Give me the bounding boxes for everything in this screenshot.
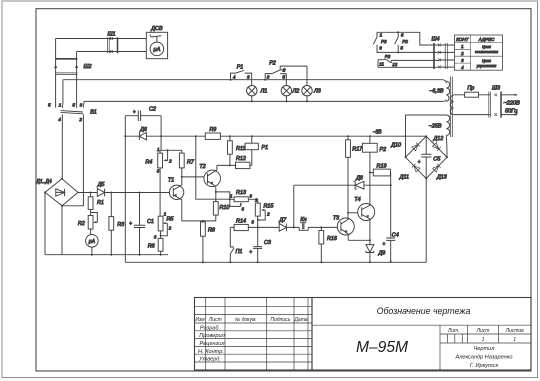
wire 25В winding to bridge left	[406, 115, 447, 157]
diode Д13	[433, 164, 447, 181]
svg-text:Т1: Т1	[168, 177, 174, 183]
svg-text:С5: С5	[433, 156, 441, 162]
svg-text:управления: управления	[476, 64, 497, 68]
svg-text:Т4: Т4	[354, 197, 360, 203]
wire vertical to В1 contact 5 right	[76, 52, 78, 105]
diode Д10	[390, 142, 420, 151]
svg-text:2: 2	[266, 212, 270, 217]
svg-text:С3: С3	[264, 240, 271, 246]
diode Д12	[433, 136, 444, 151]
potentiometer R15	[251, 197, 274, 227]
svg-text:В1: В1	[90, 109, 97, 115]
capacitor C3	[249, 227, 271, 263]
diode bridge Д1..Д4	[35, 178, 78, 207]
svg-text:Цепи: Цепи	[482, 45, 491, 49]
resistor R11	[228, 136, 246, 165]
wire Д8 line	[294, 184, 391, 186]
svg-text:3: 3	[267, 74, 270, 79]
svg-text:+: +	[382, 242, 385, 248]
svg-text:R15: R15	[264, 203, 275, 209]
wire Т3/Т4 emitter rail	[348, 239, 371, 244]
svg-text:Ш4: Ш4	[432, 37, 440, 43]
svg-text:R11: R11	[236, 146, 246, 152]
svg-text:μА: μА	[153, 47, 161, 53]
header row labels	[195, 317, 307, 323]
svg-text:+: +	[133, 110, 136, 116]
svg-text:12: 12	[392, 62, 398, 67]
svg-text:Утверд.: Утверд.	[198, 357, 221, 363]
svg-text:С2: С2	[149, 106, 156, 112]
svg-text:Рецензил: Рецензил	[199, 341, 225, 347]
svg-text:Л1: Л1	[260, 89, 268, 95]
wire 25В winding to bridge right	[445, 135, 448, 157]
capacitor C2	[125, 106, 161, 121]
capacitor C5	[418, 136, 442, 178]
svg-text:Лист: Лист	[208, 317, 222, 323]
diode Д5	[97, 182, 106, 196]
svg-text:8: 8	[401, 32, 404, 37]
svg-text:−6,3В: −6,3В	[429, 89, 444, 95]
resistor R19	[369, 163, 391, 238]
svg-text:5: 5	[48, 102, 51, 107]
svg-text:−25В: −25В	[429, 123, 442, 129]
document name	[377, 306, 471, 316]
wire heater bus 1	[63, 80, 446, 105]
transistor Т3	[333, 213, 354, 241]
title block main box	[312, 298, 531, 371]
svg-text:Д13: Д13	[436, 174, 447, 180]
drawing number	[356, 339, 408, 356]
relay contact Р2.1	[373, 32, 387, 50]
lamp Л1	[247, 86, 268, 103]
wire ДСВ line 1	[56, 38, 147, 40]
svg-text:Л3: Л3	[313, 89, 321, 95]
wire bridge left corner to meter rail	[44, 192, 46, 254]
svg-text:Чертил: Чертил	[474, 346, 496, 352]
svg-text:ДСВ: ДСВ	[150, 26, 163, 32]
svg-text:Ш1: Ш1	[108, 31, 116, 37]
transformer Тр core	[450, 77, 452, 138]
lamp Л3	[302, 66, 321, 102]
svg-text:Лит.: Лит.	[447, 328, 460, 334]
diode Д7	[278, 218, 287, 232]
svg-text:R8: R8	[208, 228, 215, 234]
svg-text:2: 2	[168, 225, 172, 230]
wire Т2 emitter / R10 node	[215, 191, 230, 199]
svg-text:Т3: Т3	[333, 216, 339, 222]
svg-text:+: +	[249, 250, 252, 256]
svg-text:5: 5	[282, 74, 285, 79]
wire −3В feed down (R13 branch)	[196, 136, 230, 199]
svg-text:Лист: Лист	[476, 328, 490, 334]
node Т3 collector / Т4 base	[347, 212, 362, 214]
svg-text:Ш3: Ш3	[492, 86, 500, 92]
svg-text:R14: R14	[236, 219, 246, 225]
potentiometer R2	[78, 213, 97, 235]
transformer heater winding −6,3В	[429, 81, 449, 101]
svg-text:11: 11	[379, 62, 384, 67]
wire contact 11 to Ш4 pin4	[378, 66, 439, 68]
wire В1 leg 4 to bridge	[61, 114, 63, 179]
svg-text:R7: R7	[187, 159, 195, 165]
wire vertical to В1 contact 5 left	[55, 39, 57, 105]
meter rail (bottom bus A)	[45, 254, 168, 256]
capacitor C1	[129, 192, 154, 256]
svg-text:5: 5	[400, 45, 403, 50]
svg-text:Р2: Р2	[385, 54, 391, 59]
svg-text:3: 3	[247, 74, 250, 79]
svg-text:R9: R9	[209, 127, 216, 133]
resistor R12	[217, 156, 252, 168]
wire bridge bottom to ground rail	[425, 178, 427, 262]
svg-text:+: +	[418, 159, 421, 165]
svg-text:4: 4	[58, 117, 61, 122]
svg-text:Р2: Р2	[380, 147, 387, 153]
ground rail (bottom bus B)	[125, 261, 426, 263]
transformer primary winding	[450, 95, 453, 115]
svg-text:Д10: Д10	[390, 142, 401, 148]
signature rows	[198, 325, 226, 362]
svg-text:Д6: Д6	[139, 127, 147, 133]
zener diode Д8	[353, 176, 391, 190]
svg-text:2: 2	[282, 68, 286, 73]
svg-text:№ докум.: № докум.	[235, 317, 257, 323]
resistor R3	[109, 192, 124, 256]
zener diode Д9	[366, 245, 385, 264]
potentiometer R13	[229, 190, 253, 211]
relay contact Р1	[230, 64, 252, 85]
svg-text:5: 5	[72, 102, 75, 107]
wire mains 220V bottom	[454, 114, 518, 116]
svg-text:Листов: Листов	[505, 328, 525, 334]
svg-text:1: 1	[59, 102, 62, 107]
lamp Л2	[281, 86, 299, 103]
supply bus −3В with diode Д6	[125, 127, 426, 140]
resistor R17	[346, 136, 364, 213]
svg-text:1: 1	[482, 337, 485, 343]
title block left table	[195, 298, 313, 371]
connector Ш3	[489, 86, 501, 118]
relay coil Р2	[362, 136, 386, 205]
svg-text:2: 2	[460, 51, 464, 56]
svg-text:Д1..Д4: Д1..Д4	[35, 179, 52, 185]
svg-text:Ш2: Ш2	[84, 64, 92, 70]
push button Кн	[299, 217, 308, 230]
svg-text:Д11: Д11	[399, 174, 409, 180]
wire heater bus 2	[84, 100, 446, 105]
resistor R7	[179, 150, 194, 177]
potentiometer R4	[145, 147, 172, 216]
connector Ш1	[107, 31, 117, 53]
connector Ш4	[432, 37, 455, 70]
wire Р2 tops to Ш4 pin1	[377, 31, 439, 45]
svg-text:Д12: Д12	[433, 136, 444, 142]
svg-text:R17: R17	[352, 147, 363, 153]
svg-text:1: 1	[380, 32, 383, 37]
transistor Т2	[199, 164, 220, 192]
svg-text:R1: R1	[97, 200, 104, 206]
svg-text:АДРЕС: АДРЕС	[478, 37, 495, 42]
svg-text:R10: R10	[220, 205, 230, 211]
svg-text:R6: R6	[148, 243, 155, 249]
diode Д11	[399, 164, 420, 181]
svg-text:Александр Назаренко: Александр Назаренко	[454, 355, 512, 361]
svg-text:Цепи: Цепи	[482, 59, 491, 63]
svg-text:R12: R12	[236, 156, 246, 162]
svg-text:Л2: Л2	[292, 89, 300, 95]
svg-text:Р2: Р2	[402, 39, 408, 44]
svg-text:Г. Иркутск: Г. Иркутск	[470, 363, 499, 369]
transistor Т1	[168, 177, 184, 221]
resistor R8	[201, 220, 215, 263]
wire C2 right leg down to R4 node	[160, 116, 162, 151]
resistor R10	[213, 192, 229, 221]
svg-text:R16: R16	[327, 236, 337, 242]
wire Т1 emitter rail	[182, 220, 216, 222]
svg-text:+: +	[129, 221, 132, 227]
relay coil Р1	[245, 136, 268, 165]
svg-text:Разраб.: Разраб.	[200, 325, 220, 331]
svg-text:2: 2	[78, 117, 82, 122]
svg-text:С1: С1	[147, 219, 154, 225]
address table КОНТ/АДРЕС	[454, 35, 502, 70]
switch П1 contact	[229, 227, 242, 263]
fuse Пр	[454, 86, 490, 98]
wire mains 220V top	[501, 94, 518, 96]
meter μA	[86, 235, 99, 256]
svg-text:Р1: Р1	[237, 64, 244, 70]
wire Т1 collector to Т2 base	[181, 176, 208, 178]
svg-text:Д5: Д5	[97, 182, 106, 188]
wire ДСВ line 2	[77, 51, 147, 53]
resistor R9 in bus	[205, 127, 220, 139]
svg-text:50Гц: 50Гц	[505, 108, 517, 114]
svg-text:Д7: Д7	[278, 218, 287, 224]
svg-text:Проверил: Проверил	[199, 333, 225, 339]
relay contact Р2 lamps	[264, 61, 307, 86]
relay contact Р2.2	[395, 32, 409, 50]
radio unit ДСВ with meter	[146, 26, 167, 59]
wire bridge right / Т1 base line	[78, 192, 173, 194]
relay contact Р2.3	[378, 54, 398, 67]
node Д7/riser junction	[293, 185, 295, 228]
capacitor C4	[382, 232, 398, 262]
svg-text:Т2: Т2	[199, 164, 205, 170]
wire Р2 bottoms to Ш4 pin2	[377, 49, 439, 54]
svg-text:Д8: Д8	[355, 176, 363, 182]
svg-text:4: 4	[233, 74, 236, 79]
svg-text:R2: R2	[78, 221, 85, 227]
svg-text:R4: R4	[145, 159, 152, 165]
svg-text:Обозначение чертежа: Обозначение чертежа	[377, 306, 471, 316]
svg-text:Кн: Кн	[300, 217, 306, 223]
lit/list/listov	[447, 328, 524, 369]
svg-text:Изм: Изм	[195, 317, 205, 323]
svg-text:КОНТ: КОНТ	[456, 37, 470, 42]
node dot bus left end	[124, 135, 126, 137]
svg-text:С4: С4	[392, 232, 399, 238]
svg-text:3: 3	[80, 102, 83, 107]
svg-text:Р2: Р2	[381, 39, 387, 44]
svg-text:−3В: −3В	[372, 130, 382, 136]
svg-text:R13: R13	[236, 190, 246, 196]
wire В1 leg 2 L to bridge bottom	[62, 114, 83, 206]
wire bridge bottom to meter rail	[61, 206, 63, 255]
svg-text:Н. Контр.: Н. Контр.	[198, 349, 224, 355]
transistor Т4	[354, 197, 374, 240]
svg-text:R3: R3	[117, 222, 124, 228]
potentiometer R5	[154, 211, 175, 239]
svg-text:Пр: Пр	[467, 86, 474, 92]
svg-text:Подпись: Подпись	[270, 317, 290, 323]
svg-text:М–95М: М–95М	[356, 339, 408, 356]
svg-text:Р1: Р1	[262, 145, 269, 151]
svg-text:П1: П1	[236, 249, 243, 255]
svg-text:1: 1	[513, 337, 516, 343]
svg-text:Дата: Дата	[293, 317, 307, 323]
wire ground rail vertical (C2 left / bottom rail riser)	[124, 116, 126, 263]
resistor R6	[148, 238, 163, 255]
svg-text:R19: R19	[377, 163, 387, 169]
svg-text:μА: μА	[88, 239, 96, 245]
label ~220В 50Гц	[504, 100, 521, 114]
resistor R14	[230, 219, 258, 231]
transformer winding −25В	[429, 115, 450, 135]
svg-text:~220В: ~220В	[504, 100, 521, 106]
wire contact 12 to Ш4 pin3	[391, 59, 439, 61]
svg-text:Д9: Д9	[378, 251, 386, 257]
svg-text:6: 6	[379, 45, 382, 50]
resistor R16	[319, 226, 337, 263]
svg-text:2: 2	[168, 158, 172, 163]
svg-text:Р2: Р2	[269, 61, 276, 67]
wire Д7/Кн line	[258, 226, 341, 228]
resistor R1	[88, 192, 104, 213]
connector Ш2	[54, 59, 91, 75]
wire R4/R7 top node	[160, 149, 182, 151]
diode bridge Д10..Д13	[405, 135, 449, 179]
switch В1	[48, 102, 97, 121]
svg-text:R5: R5	[167, 216, 175, 222]
svg-text:согласования: согласования	[475, 50, 498, 54]
